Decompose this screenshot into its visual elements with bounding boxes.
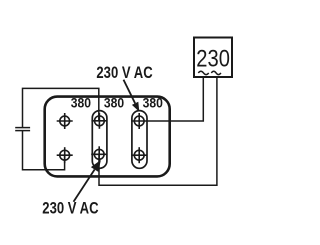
slot (right phase slot) xyxy=(132,111,147,169)
arrow from top 230 V AC label to right-top terminal xyxy=(124,80,140,112)
svg-text:230 V AC: 230 V AC xyxy=(96,64,152,83)
AC symbol tilde (right pin) xyxy=(211,71,221,74)
terminal screw middle-top xyxy=(91,113,107,129)
terminal screw right-bottom xyxy=(131,147,147,163)
wire: capacitor bottom lead down and over to bottom-left terminal xyxy=(23,131,65,170)
capacitor C1 plates xyxy=(15,128,30,131)
arrow from bottom 230 V AC label to middle-bottom terminal xyxy=(74,160,101,202)
wire stub: into middle top screw xyxy=(98,111,100,121)
wire: bottom-middle terminal down, right and up to AC source right pin xyxy=(99,77,217,185)
terminal block TB1 body xyxy=(45,97,170,177)
AC symbol tilde (left pin) xyxy=(198,71,208,74)
terminal screw middle-bottom xyxy=(91,146,107,162)
wire: capacitor top lead up and over to middle top terminal xyxy=(23,88,99,127)
AC source U1 box xyxy=(194,38,232,78)
svg-text:230 V AC: 230 V AC xyxy=(42,199,98,218)
wire: top-right terminal to AC source left pin xyxy=(139,77,203,121)
svg-text:230: 230 xyxy=(196,45,230,72)
svg-text:380: 380 xyxy=(143,95,163,111)
wire stub: out of middle bottom screw xyxy=(98,154,100,169)
terminal screw right-top xyxy=(131,113,147,129)
slot (middle phase slot) xyxy=(92,111,107,169)
svg-text:380: 380 xyxy=(71,95,91,111)
terminal screw bottom-left xyxy=(57,147,73,163)
terminal screw top-left xyxy=(57,113,73,129)
svg-text:380: 380 xyxy=(104,95,124,111)
